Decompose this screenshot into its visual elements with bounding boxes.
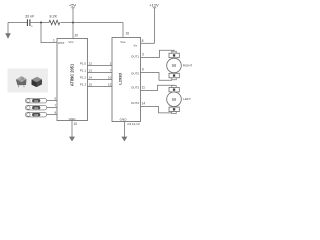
svg-text:Vs: Vs — [133, 43, 137, 47]
svg-text:6: 6 — [54, 97, 56, 101]
wire OUT1 pin 3 to motor M1 top — [141, 50, 175, 57]
svg-text:1: 1 — [53, 39, 55, 43]
svg-text:LEFT: LEFT — [183, 97, 191, 101]
motor M1 RIGHT — [167, 51, 193, 80]
svg-text:7: 7 — [110, 69, 112, 73]
switch SW1 — [25, 98, 46, 103]
wire +5V rail to U2 pin 16 — [122, 23, 124, 38]
svg-text:8: 8 — [54, 111, 56, 115]
svg-text:+5V: +5V — [69, 3, 77, 8]
switch SW3 — [25, 112, 46, 117]
svg-text:L293D: L293D — [117, 73, 122, 85]
svg-text:P1.3: P1.3 — [80, 83, 87, 87]
ground GND2 (U1) — [69, 137, 75, 142]
svg-text:2: 2 — [110, 62, 112, 66]
svg-text:13: 13 — [89, 69, 93, 73]
svg-text:P1.1: P1.1 — [80, 69, 87, 73]
svg-text:12: 12 — [89, 62, 93, 66]
wire OUT3 pin 11 to motor M2 top — [141, 85, 175, 90]
svg-text:+12V: +12V — [149, 3, 159, 8]
svg-text:AT89C 2051: AT89C 2051 — [70, 63, 75, 86]
wire SW2 to U1 — [47, 104, 57, 108]
wire P1.2 to U2 IN3 — [88, 76, 113, 80]
svg-text:10: 10 — [108, 76, 112, 80]
svg-text:M: M — [172, 63, 176, 68]
svg-text:3: 3 — [142, 53, 144, 57]
svg-text:8: 8 — [142, 39, 144, 43]
wire OUT2 pin 6 to motor M1 bottom — [141, 68, 173, 81]
svg-text:14: 14 — [142, 102, 146, 106]
ground GND1 (reset circuit) — [5, 23, 11, 39]
svg-text:OUT2: OUT2 — [131, 71, 139, 75]
svg-text:OUT1: OUT1 — [131, 55, 139, 59]
svg-text:Vcc: Vcc — [68, 40, 74, 44]
svg-text:16: 16 — [126, 32, 130, 36]
svg-text:8.2K: 8.2K — [50, 14, 58, 18]
sensor photo — [8, 69, 49, 93]
op-amp U2 L293D box — [112, 38, 141, 122]
svg-text:Vss: Vss — [120, 40, 126, 44]
wire R1 to +5V rail — [60, 22, 123, 24]
node +5V junction — [72, 22, 74, 24]
svg-text:7: 7 — [54, 104, 56, 108]
svg-text:33 nF: 33 nF — [25, 14, 35, 18]
svg-text:IR2: IR2 — [34, 107, 38, 110]
svg-text:15: 15 — [89, 83, 93, 87]
svg-text:4,5,12,13: 4,5,12,13 — [127, 122, 140, 126]
wire OUT4 pin 14 to motor M2 bottom — [141, 102, 172, 113]
wire U2 GND pins 4,5,12,13 — [124, 122, 139, 138]
svg-text:GND: GND — [69, 117, 77, 121]
wire P1.1 to U2 IN2 — [88, 69, 113, 73]
wire C1 to R1 — [30, 22, 49, 24]
svg-text:GND: GND — [120, 118, 128, 122]
svg-text:11: 11 — [142, 86, 146, 90]
power +12V — [149, 3, 159, 44]
svg-text:IR1: IR1 — [34, 100, 38, 103]
svg-text:M: M — [172, 97, 176, 102]
wire ground to C1 — [8, 22, 27, 24]
svg-text:P1.0: P1.0 — [80, 62, 87, 66]
op-amp U1 AT89C2051 box — [57, 39, 88, 121]
svg-text:+: + — [31, 25, 33, 29]
motor M2 LEFT — [167, 85, 191, 113]
wire P1.0 to U2 IN1 — [88, 62, 113, 66]
svg-text:6: 6 — [142, 68, 144, 72]
wire P1.3 to U2 IN4 — [88, 83, 113, 87]
wire SW1 to U1 — [47, 97, 57, 101]
svg-text:RIGHT: RIGHT — [183, 64, 193, 68]
svg-text:RST: RST — [58, 41, 64, 45]
svg-text:10: 10 — [74, 122, 78, 126]
wire U1 GND pin 10 — [72, 121, 77, 138]
power +5V — [69, 3, 77, 23]
capacitor C1 33nF — [25, 14, 35, 28]
svg-text:20: 20 — [75, 33, 79, 37]
wire SW3 to U1 — [47, 111, 57, 115]
wire RST node to U1 pin 1 — [41, 23, 57, 43]
svg-text:OUT4: OUT4 — [131, 101, 139, 105]
wire +5V to U1 pin 20 — [72, 23, 74, 39]
wire +12V to U2 pin 8 — [141, 39, 155, 43]
node RST junction — [40, 22, 42, 24]
ground GND3 (U2) — [121, 137, 127, 142]
svg-text:P1.2: P1.2 — [80, 76, 87, 80]
svg-text:OUT3: OUT3 — [131, 85, 139, 89]
resistor R1 8.2K — [49, 14, 60, 25]
switch SW2 — [25, 105, 46, 110]
svg-text:15: 15 — [108, 83, 112, 87]
svg-text:14: 14 — [89, 76, 93, 80]
svg-text:IR3: IR3 — [34, 114, 38, 117]
